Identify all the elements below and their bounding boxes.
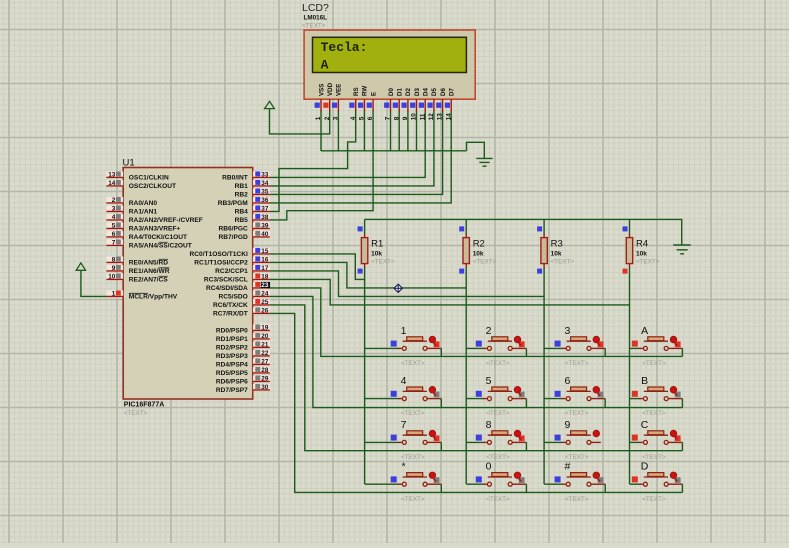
- push button B (keypad row 2 col 4): [630, 375, 683, 417]
- push button # (keypad row 4 col 3): [544, 461, 605, 503]
- svg-text:6: 6: [112, 231, 116, 238]
- svg-text:8: 8: [112, 257, 116, 264]
- svg-text:D7: D7: [449, 88, 456, 96]
- svg-text:38: 38: [261, 214, 269, 221]
- svg-text:D0: D0: [388, 88, 395, 96]
- svg-text:PIC16F877A: PIC16F877A: [124, 402, 164, 409]
- wire: LCD RS to U1 RB4 (pin 37): [270, 111, 356, 211]
- svg-text:RC7/RX/DT: RC7/RX/DT: [213, 311, 248, 318]
- svg-text:RC3/SCK/SCL: RC3/SCK/SCL: [204, 277, 248, 284]
- svg-text:5: 5: [112, 223, 116, 230]
- wire: R1 bottom keypad column 1 vertical: [364, 267, 366, 484]
- svg-text:33: 33: [261, 172, 269, 179]
- wire: LCD D2 down to ground rail: [407, 111, 409, 151]
- U1 pin 28 (RD5/PSP5) right: [216, 367, 270, 377]
- svg-text:RB3/PGM: RB3/PGM: [218, 200, 249, 207]
- svg-text:RD6/PSP6: RD6/PSP6: [216, 379, 248, 386]
- wire: LCD D1 down to ground rail: [398, 111, 400, 151]
- resistor R4 10k: [623, 226, 660, 273]
- svg-text:RC0/T1OSO/T1CKI: RC0/T1OSO/T1CKI: [190, 251, 248, 258]
- svg-text:4: 4: [350, 116, 357, 120]
- svg-text:10k: 10k: [371, 250, 382, 257]
- svg-text:B: B: [641, 375, 648, 387]
- svg-text:RD3/PSP3: RD3/PSP3: [216, 353, 248, 360]
- U1 pin 18 (RC3/SCK/SCL) right: [204, 273, 270, 283]
- U1 pin 8 (RE0/AN5/RD) left: [106, 256, 168, 266]
- U1 pin 34 (RB1) right: [235, 180, 270, 190]
- svg-text:<TEXT>: <TEXT>: [551, 259, 575, 266]
- svg-text:OSC2/CLKOUT: OSC2/CLKOUT: [129, 183, 176, 190]
- svg-text:8: 8: [393, 116, 400, 120]
- svg-text:12: 12: [428, 113, 435, 121]
- svg-text:RC5/SDO: RC5/SDO: [218, 294, 247, 301]
- U1 pin 16 (RC1/T1OSI/CCP2) right: [194, 256, 269, 266]
- svg-text:3: 3: [112, 206, 116, 213]
- svg-text:D3: D3: [414, 88, 421, 96]
- svg-text:2: 2: [112, 197, 116, 204]
- svg-text:0: 0: [486, 461, 492, 473]
- LCD pin 14 (D7): [445, 88, 456, 121]
- svg-text:RA5/AN4/SS/C2OUT: RA5/AN4/SS/C2OUT: [129, 243, 192, 250]
- U1 pin 19 (RD0/PSP0) right: [216, 324, 270, 334]
- svg-text:4: 4: [112, 214, 116, 221]
- wire: VDD to +5V power arrow: [270, 108, 330, 133]
- svg-text:39: 39: [261, 223, 269, 230]
- wire: rail down to R4 top: [629, 219, 631, 234]
- svg-text:<TEXT>: <TEXT>: [565, 410, 589, 417]
- svg-text:LCD?: LCD?: [302, 2, 329, 14]
- svg-text:10k: 10k: [473, 250, 484, 257]
- wire: U1 RC1 (pin 16) to column 2 / R2: [270, 262, 467, 288]
- U1 pin 27 (RD4/PSP4) right: [216, 358, 270, 368]
- svg-text:RE0/AN5/RD: RE0/AN5/RD: [129, 260, 168, 267]
- wire: rail down to R2 top: [465, 219, 467, 234]
- svg-text:40: 40: [261, 231, 269, 238]
- svg-text:VSS: VSS: [318, 84, 325, 96]
- wire: R4 bottom keypad column 4 vertical: [629, 267, 631, 484]
- wire: LCD D0 down to ground rail: [390, 111, 392, 151]
- svg-text:37: 37: [261, 206, 269, 213]
- wire: LCD D7 to U1 RB3 (pin 36): [270, 111, 452, 203]
- svg-text:A: A: [321, 57, 329, 72]
- svg-text:23: 23: [261, 282, 269, 289]
- svg-text:25: 25: [261, 299, 269, 306]
- svg-text:RC4/SDI/SDA: RC4/SDI/SDA: [206, 285, 248, 292]
- svg-text:13: 13: [108, 172, 116, 179]
- wire: LCD VSS down to ground rail: [320, 111, 322, 151]
- power +5V arrow (left, MCLR): [76, 263, 85, 270]
- LCD pin 5 (RW): [358, 86, 369, 121]
- svg-text:R2: R2: [473, 239, 485, 250]
- svg-text:36: 36: [261, 197, 269, 204]
- svg-text:<TEXT>: <TEXT>: [642, 496, 666, 503]
- svg-text:<TEXT>: <TEXT>: [486, 360, 510, 367]
- svg-text:14: 14: [445, 113, 452, 121]
- svg-text:RS: RS: [353, 87, 360, 96]
- svg-text:24: 24: [261, 291, 269, 298]
- U1 pin 2 (RA0/AN0) left: [106, 197, 157, 207]
- svg-text:VEE: VEE: [336, 84, 343, 96]
- svg-text:28: 28: [261, 367, 269, 374]
- svg-text:16: 16: [261, 257, 269, 264]
- svg-text:OSC1/CLKIN: OSC1/CLKIN: [129, 175, 169, 182]
- LCD pin 6 (E): [367, 92, 378, 120]
- svg-text:VDD: VDD: [327, 82, 334, 96]
- LCD LCD? LM016L display module: [302, 2, 475, 99]
- svg-text:9: 9: [112, 265, 116, 272]
- svg-text:22: 22: [261, 350, 269, 357]
- svg-text:<TEXT>: <TEXT>: [401, 496, 425, 503]
- wire: LCD D3 down to ground rail: [416, 111, 418, 151]
- U1 pin 5 (RA3/AN3/VREF+) left: [106, 222, 180, 232]
- push button 2 (keypad row 1 col 2): [466, 325, 526, 367]
- U1 pin 23 (RC4/SDI/SDA) right: [206, 282, 270, 292]
- svg-text:4: 4: [401, 375, 407, 387]
- svg-text:18: 18: [261, 274, 269, 281]
- svg-text:1: 1: [401, 325, 407, 337]
- U1 pin 26 (RC7/RX/DT) right: [213, 307, 270, 317]
- origin junction diamond marker: [394, 284, 402, 292]
- svg-text:RA4/T0CKI/C1OUT: RA4/T0CKI/C1OUT: [129, 234, 187, 241]
- ground symbol near LCD: [476, 158, 492, 166]
- LCD pin 9 (D2): [402, 88, 413, 121]
- svg-text:RD0/PSP0: RD0/PSP0: [216, 328, 248, 335]
- svg-text:RD1/PSP1: RD1/PSP1: [216, 336, 248, 343]
- wire: LCD D5 to U1 RB1 (pin 34): [270, 111, 434, 186]
- svg-text:RD7/PSP7: RD7/PSP7: [216, 387, 248, 394]
- wire: U1 RC5 (pin 24) to keypad row 2: [270, 296, 683, 407]
- svg-text:7: 7: [385, 116, 392, 120]
- svg-text:RA1/AN1: RA1/AN1: [129, 209, 158, 216]
- U1 pin 6 (RA4/T0CKI/C1OUT) left: [106, 231, 187, 241]
- U1 pin 7 (RA5/AN4/SS/C2OUT) left: [106, 239, 191, 249]
- svg-text:20: 20: [261, 333, 269, 340]
- svg-text:10k: 10k: [636, 250, 647, 257]
- push button 5 (keypad row 2 col 2): [466, 375, 526, 417]
- LCD pin 2 (VDD): [323, 82, 334, 120]
- svg-text:3: 3: [333, 116, 340, 120]
- svg-text:13: 13: [437, 113, 444, 121]
- svg-text:27: 27: [261, 359, 269, 366]
- svg-text:<TEXT>: <TEXT>: [642, 410, 666, 417]
- svg-text:RC6/TX/CK: RC6/TX/CK: [213, 302, 248, 309]
- wire: LCD D4 to U1 RB0 (pin 33): [270, 111, 426, 177]
- svg-text:<TEXT>: <TEXT>: [371, 259, 395, 266]
- svg-text:RB5: RB5: [235, 217, 249, 224]
- svg-text:RC2/CCP1: RC2/CCP1: [215, 268, 248, 275]
- U1 pin 40 (RB7/PGD) right: [218, 231, 269, 241]
- resistor R1 10k: [358, 226, 395, 273]
- LCD pin 8 (D1): [393, 88, 404, 121]
- LCD pin 12 (D5): [428, 88, 439, 121]
- svg-text:<TEXT>: <TEXT>: [642, 360, 666, 367]
- wire: R3 bottom keypad column 3 vertical: [543, 267, 545, 484]
- push button 1 (keypad row 1 col 1): [365, 325, 442, 367]
- U1 pin 24 (RC5/SDO) right: [218, 290, 269, 300]
- push button 6 (keypad row 2 col 3): [544, 375, 605, 417]
- U1 pin 17 (RC2/CCP1) right: [215, 265, 270, 275]
- op-amp U1 PIC16F877A microcontroller body: [123, 158, 253, 418]
- svg-text:RD4/PSP4: RD4/PSP4: [216, 362, 248, 369]
- wire: U1 RC3 (pin 18) to column 4 / R4: [270, 279, 630, 305]
- wire: LCD E to U1 RB5 (pin 38): [270, 111, 374, 220]
- LCD pin 13 (D6): [436, 88, 447, 121]
- svg-text:RE1/AN6/WR: RE1/AN6/WR: [129, 268, 170, 275]
- svg-text:9: 9: [402, 116, 409, 120]
- U1 pin 22 (RD3/PSP3) right: [216, 350, 270, 360]
- svg-text:6: 6: [367, 116, 374, 120]
- LCD pin 4 (RS): [349, 87, 360, 120]
- svg-text:RB0/INT: RB0/INT: [222, 175, 248, 182]
- U1 pin 37 (RB4) right: [235, 205, 270, 215]
- svg-text:30: 30: [261, 384, 269, 391]
- svg-text:#: #: [564, 461, 570, 473]
- svg-text:D: D: [641, 461, 649, 473]
- U1 pin 10 (RE2/AN7/CS) left: [106, 273, 168, 283]
- wire: MCLR to +5V power arrow: [81, 271, 107, 297]
- U1 pin 20 (RD1/PSP1) right: [216, 333, 270, 343]
- wire: ground rail jog to ground symbol: [467, 142, 485, 158]
- LCD pin 10 (D3): [410, 88, 421, 121]
- svg-text:34: 34: [261, 180, 269, 187]
- push button C (keypad row 3 col 4): [630, 419, 683, 461]
- wire: U1 RC0 (pin 15) to column 1 / R1: [270, 254, 365, 280]
- wire: ground rail under LCD: [321, 150, 467, 152]
- svg-text:RB2: RB2: [235, 192, 249, 199]
- svg-text:<TEXT>: <TEXT>: [486, 496, 510, 503]
- svg-text:10: 10: [411, 113, 418, 121]
- push button D (keypad row 4 col 4): [630, 461, 683, 503]
- svg-text:7: 7: [112, 240, 116, 247]
- svg-text:<TEXT>: <TEXT>: [565, 360, 589, 367]
- wire: resistor top rail to ground: [365, 219, 682, 244]
- svg-text:14: 14: [108, 180, 116, 187]
- U1 pin 1 (MCLR/Vpp/THV) left: [106, 290, 177, 300]
- svg-text:D5: D5: [431, 88, 438, 96]
- svg-text:RA0/AN0: RA0/AN0: [129, 200, 158, 207]
- wire: LCD D6 to U1 RB2 (pin 35): [270, 111, 443, 194]
- svg-text:RA2/AN2/VREF-/CVREF: RA2/AN2/VREF-/CVREF: [129, 217, 203, 224]
- U1 pin 36 (RB3/PGM) right: [218, 197, 270, 207]
- push button 0 (keypad row 4 col 2): [466, 461, 526, 503]
- svg-text:R1: R1: [371, 239, 383, 250]
- svg-text:RE2/AN7/CS: RE2/AN7/CS: [129, 277, 168, 284]
- svg-text:<TEXT>: <TEXT>: [124, 410, 148, 417]
- LCD pin 7 (D0): [384, 88, 395, 121]
- LCD pin 1 (VSS): [315, 84, 326, 121]
- svg-text:RD2/PSP2: RD2/PSP2: [216, 345, 248, 352]
- push button A (keypad row 1 col 4): [630, 325, 683, 367]
- LCD pin 11 (D4): [419, 88, 430, 121]
- svg-text:MCLR/Vpp/THV: MCLR/Vpp/THV: [129, 294, 178, 301]
- ground symbol right of R4: [673, 245, 691, 254]
- svg-text:C: C: [641, 419, 649, 431]
- svg-text:Tecla:: Tecla:: [321, 40, 368, 55]
- U1 pin 9 (RE1/AN6/WR) left: [106, 265, 169, 275]
- wire: LCD RW down to ground rail: [363, 111, 365, 151]
- svg-text:35: 35: [261, 189, 269, 196]
- push button 8 (keypad row 3 col 2): [466, 419, 526, 461]
- svg-text:RB6/PGC: RB6/PGC: [218, 226, 248, 233]
- svg-text:<TEXT>: <TEXT>: [302, 22, 326, 29]
- wire: rail down to R1 top: [364, 219, 366, 234]
- svg-text:26: 26: [261, 308, 269, 315]
- svg-text:11: 11: [419, 113, 426, 120]
- svg-text:5: 5: [486, 375, 492, 387]
- svg-text:RW: RW: [362, 86, 369, 96]
- wire: LCD VEE down to ground rail: [337, 111, 339, 151]
- wire: R2 bottom keypad column 2 vertical: [465, 267, 467, 484]
- wire: U1 RC4 (pin 23) to keypad row 1: [270, 288, 683, 357]
- power +5V arrow (top, LCD VDD): [265, 101, 275, 108]
- svg-text:D1: D1: [397, 88, 404, 96]
- push button 3 (keypad row 1 col 3): [544, 325, 605, 367]
- svg-text:21: 21: [261, 342, 269, 349]
- svg-text:<TEXT>: <TEXT>: [565, 496, 589, 503]
- push button 7 (keypad row 3 col 1): [365, 419, 442, 461]
- svg-text:*: *: [401, 461, 405, 473]
- svg-text:RA3/AN3/VREF+: RA3/AN3/VREF+: [129, 226, 181, 233]
- svg-text:7: 7: [401, 419, 407, 431]
- svg-text:10: 10: [108, 274, 116, 281]
- wire: rail down to R3 top: [543, 219, 545, 234]
- svg-text:D4: D4: [423, 88, 430, 96]
- svg-text:1: 1: [112, 291, 116, 298]
- svg-text:1: 1: [315, 116, 322, 120]
- svg-text:19: 19: [261, 325, 269, 332]
- U1 pin 4 (RA2/AN2/VREF-/CVRE) left: [106, 214, 202, 224]
- U1 pin 3 (RA1/AN1) left: [106, 205, 157, 215]
- svg-text:D6: D6: [440, 88, 447, 96]
- resistor R3 10k: [537, 226, 574, 273]
- U1 pin 29 (RD6/PSP6) right: [216, 375, 270, 385]
- svg-text:R3: R3: [551, 239, 563, 250]
- svg-text:5: 5: [359, 116, 366, 120]
- svg-text:17: 17: [261, 265, 269, 272]
- svg-text:<TEXT>: <TEXT>: [486, 410, 510, 417]
- U1 pin 15 (RC0/T1OSO/T1CKI) right: [190, 248, 270, 258]
- svg-text:RC1/T1OSI/CCP2: RC1/T1OSI/CCP2: [194, 260, 248, 267]
- U1 pin 35 (RB2) right: [235, 188, 270, 198]
- svg-text:29: 29: [261, 376, 269, 383]
- svg-text:15: 15: [261, 248, 269, 255]
- U1 pin 33 (RB0/INT) right: [222, 171, 270, 181]
- U1 pin 13 (OSC1/CLKIN) left: [106, 171, 169, 181]
- U1 pin 21 (RD2/PSP2) right: [216, 341, 270, 351]
- svg-text:2: 2: [324, 116, 331, 120]
- wire: U1 RC7 (pin 26) to keypad row 4: [270, 313, 683, 492]
- svg-text:<TEXT>: <TEXT>: [473, 259, 497, 266]
- svg-text:<TEXT>: <TEXT>: [401, 360, 425, 367]
- svg-text:D2: D2: [405, 88, 412, 96]
- wire: U1 RC2 (pin 17) to column 3 / R3: [270, 271, 544, 297]
- svg-text:RB7/PGD: RB7/PGD: [218, 234, 248, 241]
- svg-text:9: 9: [564, 419, 570, 431]
- svg-text:LM016L: LM016L: [304, 15, 328, 22]
- svg-text:RD5/PSP5: RD5/PSP5: [216, 370, 248, 377]
- svg-text:<TEXT>: <TEXT>: [401, 410, 425, 417]
- U1 pin 25 (RC6/TX/CK) right: [213, 299, 270, 309]
- U1 pin 39 (RB6/PGC) right: [218, 222, 269, 232]
- svg-text:6: 6: [564, 375, 570, 387]
- resistor R2 10k: [459, 226, 496, 273]
- LCD pin 3 (VEE): [332, 84, 343, 121]
- U1 pin 30 (RD7/PSP7) right: [216, 384, 270, 394]
- wire: U1 RC6 (pin 25) to keypad row 3: [270, 305, 683, 451]
- svg-text:A: A: [641, 325, 648, 337]
- U1 pin 38 (RB5) right: [235, 214, 270, 224]
- push button 9 (keypad row 3 col 3): [544, 419, 601, 461]
- svg-text:RB1: RB1: [235, 183, 249, 190]
- svg-text:E: E: [370, 92, 377, 96]
- svg-text:<TEXT>: <TEXT>: [636, 259, 660, 266]
- svg-text:3: 3: [564, 325, 570, 337]
- svg-text:R4: R4: [636, 239, 648, 250]
- svg-text:RB4: RB4: [235, 209, 249, 216]
- push button * (keypad row 4 col 1): [365, 461, 442, 503]
- U1 pin 14 (OSC2/CLKOUT) left: [106, 180, 176, 190]
- svg-text:2: 2: [486, 325, 492, 337]
- svg-text:10k: 10k: [551, 250, 562, 257]
- svg-text:8: 8: [486, 419, 492, 431]
- push button 4 (keypad row 2 col 1): [365, 375, 442, 417]
